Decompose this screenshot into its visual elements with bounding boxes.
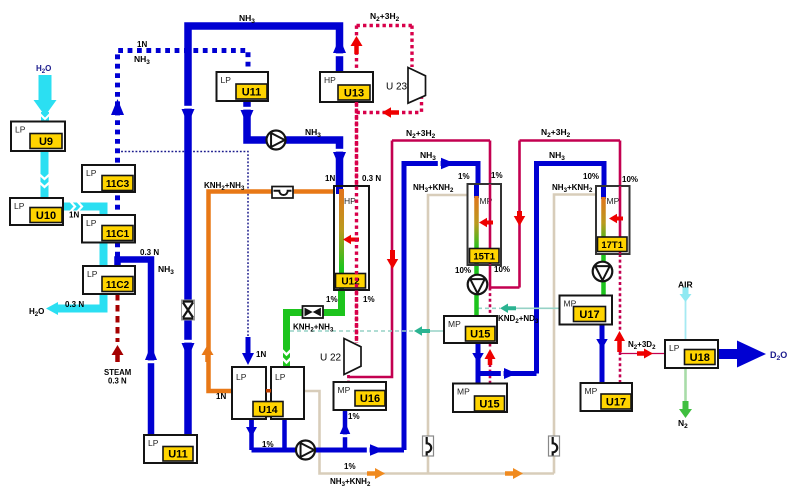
svg-text:1%: 1% (363, 295, 375, 304)
svg-text:U16: U16 (360, 393, 380, 405)
svg-text:10%: 10% (622, 175, 638, 184)
wire: blue main bottom line U14 to riser (252, 448, 405, 453)
wire: blue U14 right drain (282, 419, 287, 450)
svg-text:1%: 1% (348, 412, 360, 421)
wire: NH3 from U11 via pump into U12 (247, 101, 340, 186)
arrow: teal left 1 (500, 304, 516, 314)
wire: pale green N2 out of U18 (684, 368, 687, 402)
arrow: orange up (202, 345, 214, 362)
unit U10 (LP) box (10, 198, 63, 225)
valve on green KNH2 line (bowtie) (303, 306, 324, 318)
arrow: red up beside U17 lower (614, 331, 625, 352)
pump below 17T1 (593, 262, 613, 282)
unit U9 (LP) box (11, 122, 65, 152)
svg-text:U11: U11 (242, 86, 262, 98)
unit 11C3 (LP) box (82, 165, 135, 192)
arrow: right on bottom main line (367, 443, 370, 457)
svg-text:17T1: 17T1 (601, 240, 623, 251)
wire: blue U15 to U15 lower (476, 343, 481, 384)
unit U17 (MP) box (581, 383, 633, 411)
wire: U11 riser to 11C2 (118, 260, 152, 436)
big cyan H2O inlet arrow (39, 75, 52, 100)
unit U16 (MP) box (334, 382, 387, 410)
wire: blue U14 left drain (249, 419, 254, 450)
arrow: down cyan U9-U10 chevrons (39, 174, 50, 179)
svg-text:LP: LP (669, 343, 680, 353)
svg-text:MP: MP (457, 387, 470, 397)
loop seal 1 (423, 436, 434, 456)
svg-text:LP: LP (86, 168, 97, 178)
wire: crimson U22 outlet stub to U16 (347, 370, 350, 384)
arrow: right on U15 branch (501, 367, 504, 380)
wire: cyan water U9 to U10 (41, 151, 49, 198)
wire: green U12 to U14 (287, 287, 342, 367)
svg-text:1N: 1N (325, 174, 335, 183)
wire: teal KND2+ND3 line 2 (290, 330, 414, 332)
red arrow into U12 column (343, 235, 359, 245)
wire: blue NH3 feed system 2 (537, 164, 605, 374)
svg-text:U14: U14 (258, 404, 277, 416)
arrow: down U15 drop (472, 346, 484, 363)
arrow: down from U14 left (246, 420, 257, 437)
svg-text:LP: LP (86, 218, 97, 228)
arrow: red up into U13 (351, 36, 363, 54)
wire: blue U16 connection (343, 410, 348, 450)
wire: teal KND2+ND3 line 1 (478, 307, 500, 309)
wire: main NH3 header loop (U13 top - header - down to U11) (188, 26, 340, 435)
unit U13 (HP) box (320, 72, 373, 102)
arrow: steam up (112, 345, 124, 362)
wire: red dotted N2+3H2 U13/U23 loop (357, 24, 413, 27)
svg-text:HP: HP (324, 75, 336, 85)
svg-text:MP: MP (585, 386, 598, 396)
AIR inlet arrow (680, 287, 692, 302)
arrow: down on header drop lower (181, 340, 196, 343)
svg-text:1N: 1N (216, 392, 226, 401)
svg-text:HP: HP (344, 196, 356, 206)
svg-text:MP: MP (338, 385, 351, 395)
arrow: down into U12 (332, 149, 347, 152)
svg-text:LP: LP (148, 438, 159, 448)
wire: orange KNH2+NH3 recycle U14 to U12 (209, 192, 335, 392)
wire: blue branch U15 to system 2 riser (480, 371, 537, 376)
svg-text:LP: LP (14, 201, 25, 211)
wire: thin 1N line from dotted header down to U14 (118, 152, 249, 337)
wire: cyan U10 to 11C1 (63, 207, 104, 216)
wire: cyan 11C2 to H2O outlet (54, 294, 104, 309)
wire: maroon dashed steam feed (116, 294, 120, 342)
wire: tan KNH2 line system 2 (554, 195, 596, 474)
svg-text:U 23: U 23 (386, 82, 408, 93)
arrow: up into U16 (339, 434, 352, 437)
svg-text:1N: 1N (137, 40, 147, 49)
arrow: up into U13 (332, 53, 347, 56)
arrow: red right N2+3D2 (637, 349, 653, 359)
svg-text:11C2: 11C2 (106, 280, 130, 291)
svg-text:0.3 N: 0.3 N (65, 300, 84, 309)
svg-text:LP: LP (236, 372, 247, 382)
arrow: up on blue dotted line (110, 115, 125, 118)
svg-text:1%: 1% (458, 172, 470, 181)
exchange column U12 (HP) (334, 186, 369, 290)
svg-text:10%: 10% (455, 266, 471, 275)
svg-text:10%: 10% (583, 172, 599, 181)
arrow: H2O outlet left (46, 302, 58, 315)
svg-text:LP: LP (275, 372, 286, 382)
arrow: red left on U23 return (382, 107, 399, 118)
arrow: green chevrons into U14 (281, 349, 292, 355)
svg-text:U9: U9 (39, 136, 53, 148)
D2O product arrow (718, 349, 738, 359)
svg-text:U 22: U 22 (320, 353, 342, 364)
wire: green 17T1 down to U17 (601, 248, 606, 296)
svg-text:11C1: 11C1 (106, 229, 130, 240)
svg-text:10%: 10% (494, 265, 510, 274)
svg-text:1N: 1N (69, 211, 79, 220)
red arrow into 17T1 (609, 214, 623, 224)
svg-text:1N: 1N (256, 350, 266, 359)
unit U11 (LP) box (144, 435, 197, 463)
svg-text:AIR: AIR (678, 280, 693, 290)
svg-text:0.3 N: 0.3 N (108, 377, 127, 386)
pump on bottom main line (296, 441, 315, 460)
arrow: orange bottom 1 (367, 468, 385, 479)
svg-text:0.3 N: 0.3 N (362, 174, 381, 183)
wire: U12 internal gradient column (339, 189, 344, 272)
wire: tan KNH2 bottom header from U14 (304, 391, 554, 474)
svg-text:U18: U18 (690, 352, 710, 364)
svg-text:LP: LP (87, 269, 98, 279)
wire: blue NH3 feed system 1 (404, 164, 478, 451)
unit 11C2 (LP) box (83, 266, 135, 294)
valve on NH3 header (X symbol) (182, 300, 195, 320)
svg-text:LP: LP (221, 75, 232, 85)
wire: tan KNH2 line system 1 (428, 195, 468, 474)
crimson through 15T1 (489, 184, 492, 265)
wire: blue dotted 1N NH3 line (118, 51, 249, 267)
svg-text:0.3 N: 0.3 N (140, 248, 159, 257)
svg-text:11C3: 11C3 (106, 179, 130, 190)
exchange column 17T1 (596, 186, 630, 254)
svg-text:MP: MP (448, 319, 461, 329)
svg-text:U17: U17 (606, 396, 626, 408)
svg-text:U17: U17 (579, 309, 599, 321)
loop seal 2 (549, 436, 560, 456)
unit U17 (MP) box (560, 296, 613, 325)
compressor U22 (344, 339, 361, 375)
wire: crimson N2+3H2 loop system 2 (17T1) (520, 139, 621, 142)
unit U14 (double LP box) (232, 367, 304, 419)
arrow: up on U11 riser (144, 360, 158, 363)
arrow: red down on crimson left leg sys1 (387, 250, 399, 269)
arrow: orange bottom 2 (505, 468, 523, 479)
svg-text:U15: U15 (470, 329, 490, 341)
svg-text:MP: MP (607, 196, 620, 206)
svg-text:LP: LP (15, 125, 26, 135)
wire: cyan 11C1 to 11C2 (100, 242, 108, 266)
pump on NH3 line (267, 131, 286, 150)
arrow: down from U11 top unit (240, 107, 255, 110)
pump below 15T1 (468, 275, 488, 295)
unit 11C1 (LP) box (82, 215, 135, 243)
red dotted line over U12 (355, 102, 358, 343)
N2 outlet arrow (679, 401, 692, 418)
red arrow into 15T1 (479, 218, 493, 228)
svg-text:1%: 1% (326, 295, 338, 304)
arrow: down into U14 from 1N line (242, 337, 254, 365)
unit U11 (LP) box (217, 72, 269, 101)
wire: thin crimson N2+3D2 line to U18 (621, 353, 665, 355)
svg-text:U11: U11 (168, 449, 188, 461)
svg-text:U15: U15 (479, 398, 499, 410)
wire: blue U17 to U17 lower (600, 325, 605, 384)
wire: pale cyan AIR into U18 (685, 301, 687, 340)
svg-text:U10: U10 (36, 210, 56, 222)
unit U15 (MP) box (453, 384, 507, 413)
arrow: teal left 2 (414, 326, 430, 336)
unit U18 (LP) box (665, 340, 718, 368)
svg-text:1%: 1% (344, 462, 356, 471)
arrow: right on NH3 system1 (438, 157, 441, 171)
arrow: right cyan U10 chevrons (70, 201, 75, 212)
crimson through 17T1 (619, 186, 622, 254)
svg-text:15T1: 15T1 (473, 252, 495, 263)
connector between U14 halves (266, 389, 271, 393)
wire: green 15T1 down to U15 (474, 248, 479, 316)
arrow: down on header drop (181, 106, 196, 109)
exchange column 15T1 (468, 184, 502, 265)
svg-text:1%: 1% (262, 440, 274, 449)
arrow: down U17 drop (596, 330, 608, 349)
wire: crimson branch from system 2 header down to junction (518, 141, 521, 288)
compressor U23 (408, 68, 426, 104)
unit U15 (MP) box (444, 316, 497, 343)
arrow: red up between U15 boxes (485, 349, 496, 365)
arrow: red down on crimson branch sys2 (514, 211, 526, 226)
svg-text:U13: U13 (344, 87, 364, 99)
svg-text:1%: 1% (491, 171, 503, 180)
trap on orange KNH2 line (272, 187, 293, 199)
wire: crimson N2+3H2 loop system 1 (15T1) (392, 139, 490, 142)
